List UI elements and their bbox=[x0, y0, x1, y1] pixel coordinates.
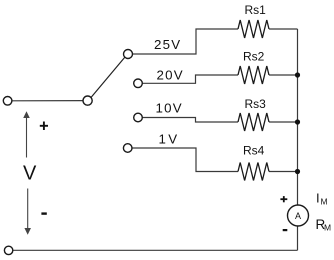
svg-text:V: V bbox=[23, 163, 37, 185]
svg-text:25V: 25V bbox=[154, 37, 181, 52]
svg-text:A: A bbox=[295, 211, 301, 221]
svg-text:M: M bbox=[321, 197, 328, 207]
svg-text:Rs2: Rs2 bbox=[243, 50, 265, 64]
svg-text:Rs3: Rs3 bbox=[245, 97, 267, 111]
svg-text:I: I bbox=[316, 191, 320, 206]
svg-text:Rs4: Rs4 bbox=[243, 144, 265, 158]
svg-text:M: M bbox=[324, 223, 331, 233]
svg-text:Rs1: Rs1 bbox=[245, 3, 267, 17]
svg-text:20V: 20V bbox=[157, 68, 184, 83]
svg-text:1V: 1V bbox=[159, 132, 180, 147]
svg-text:10V: 10V bbox=[156, 101, 183, 116]
